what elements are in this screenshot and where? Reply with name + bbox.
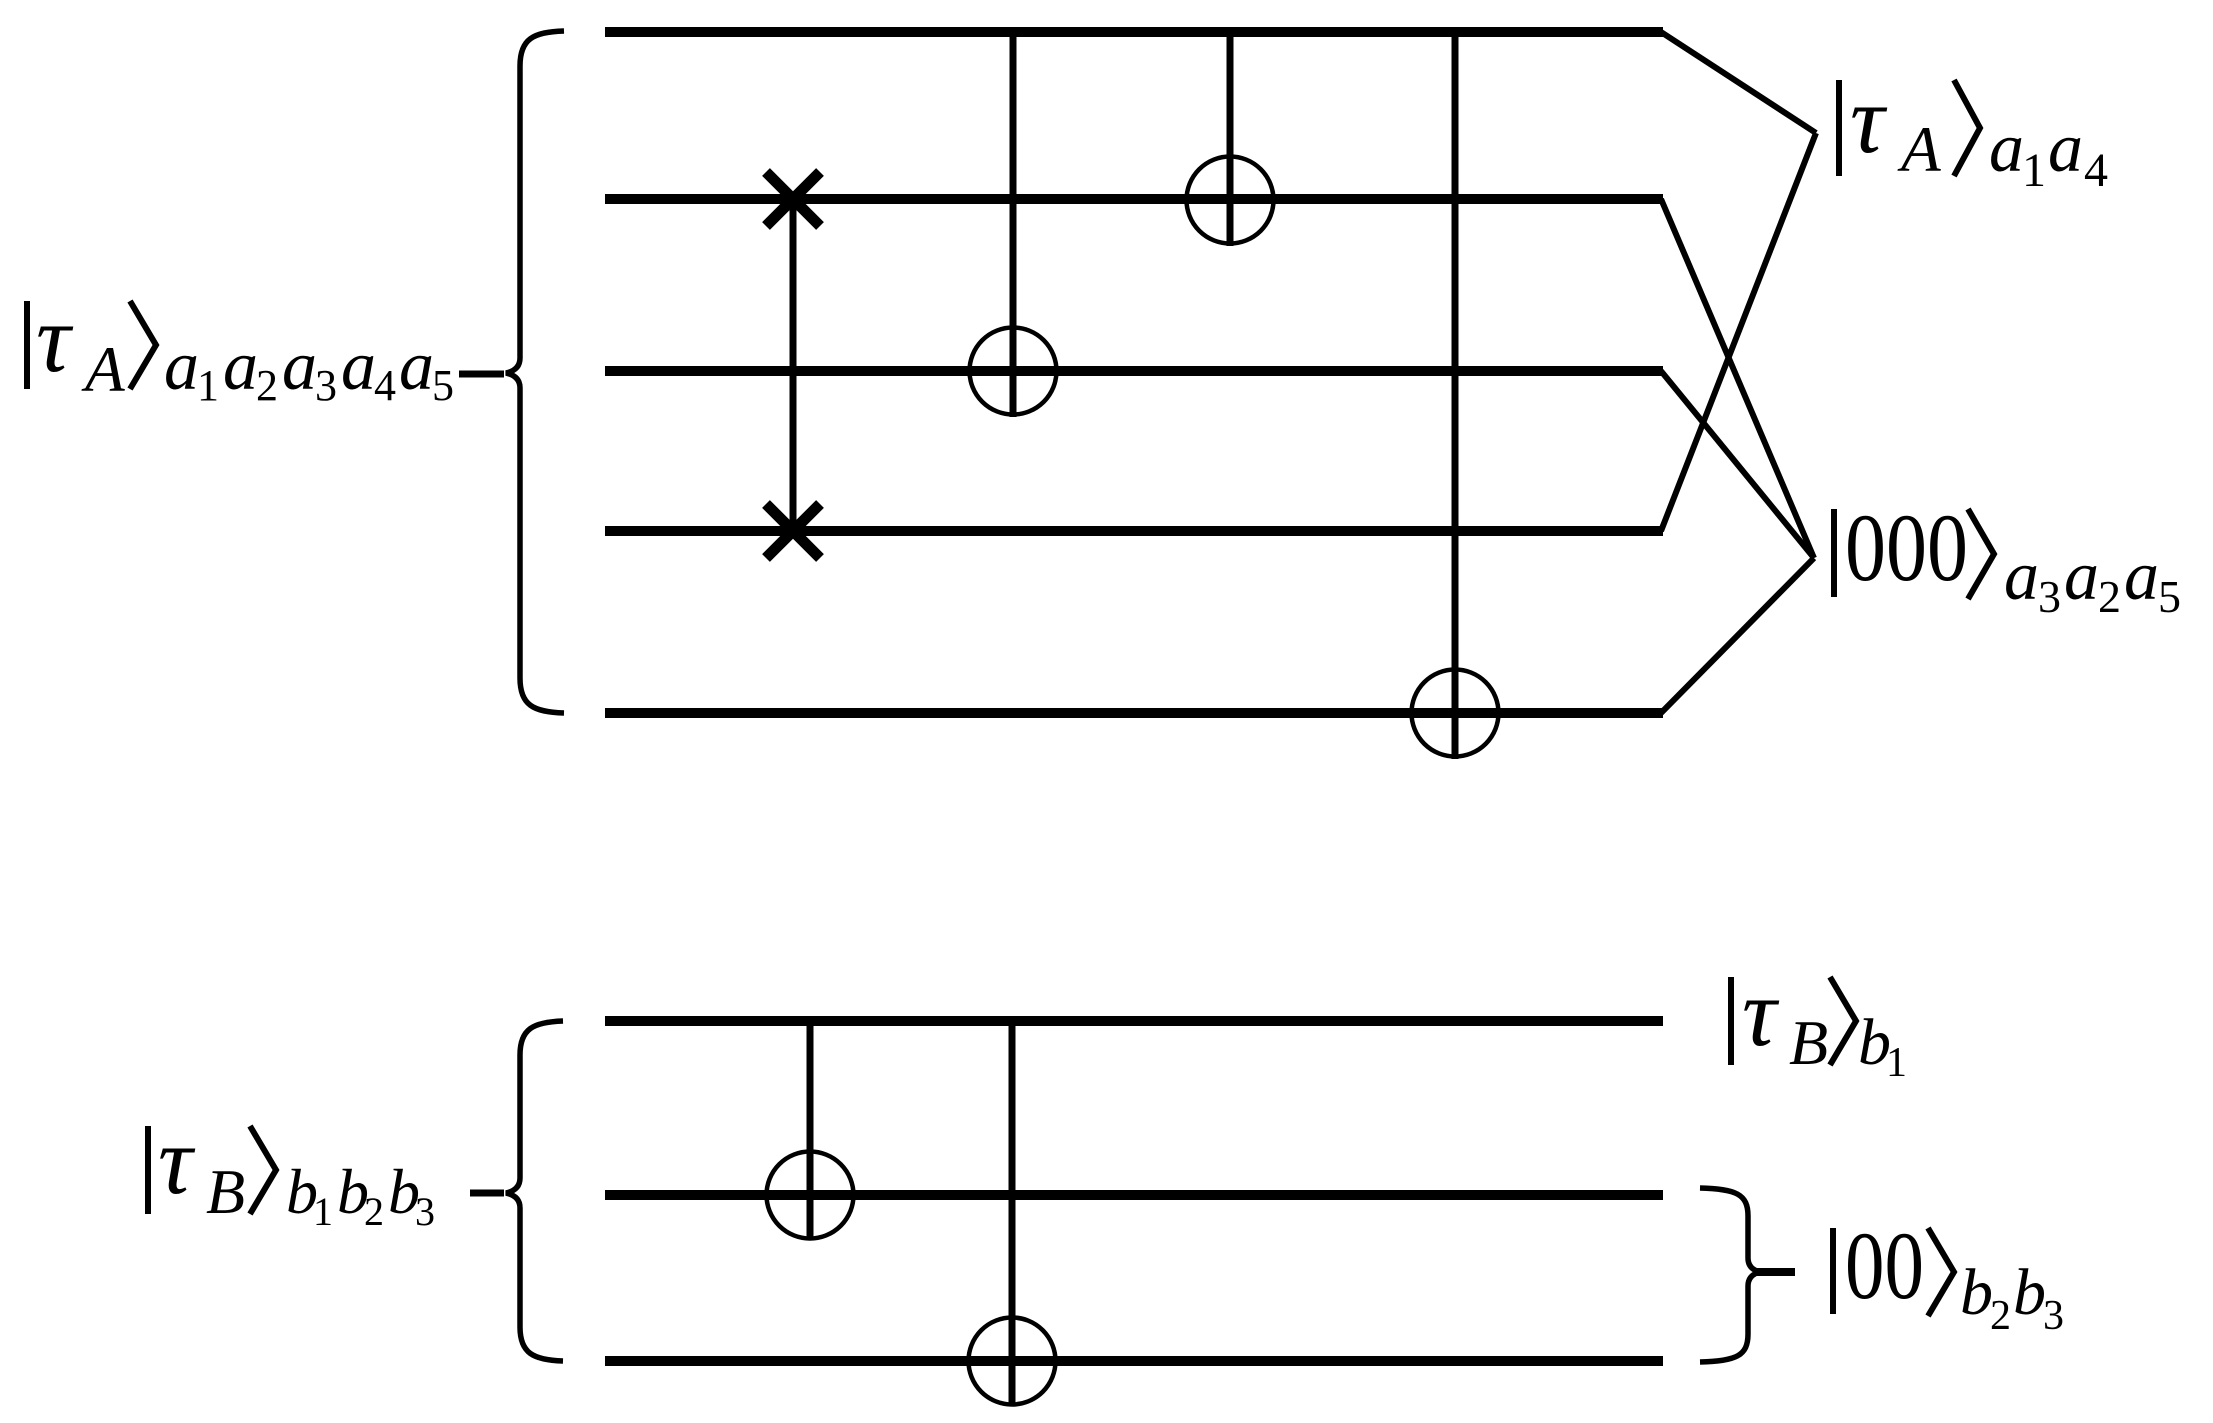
diagonal a4 to tauA node (1661, 133, 1816, 531)
svg-text:1: 1 (2022, 144, 2046, 197)
svg-text:1: 1 (313, 1189, 333, 1234)
svg-text:00: 00 (1845, 1212, 1924, 1319)
wire a2 (605, 194, 1663, 204)
svg-text:τ: τ (1850, 66, 1888, 173)
swap gate a2-a4 vertical (790, 199, 797, 531)
wire a5 (605, 708, 1663, 718)
svg-text:3: 3 (2038, 571, 2061, 622)
brace left of register B (506, 1021, 563, 1361)
brace right of b2b3 (1700, 1188, 1760, 1362)
cnot control line a1 to a5 (1452, 32, 1459, 759)
wire b1 (605, 1016, 1663, 1026)
svg-text:τ: τ (1742, 959, 1780, 1066)
svg-text:3: 3 (415, 1189, 435, 1234)
svg-text:a: a (2004, 538, 2039, 615)
swap cross on a4 (766, 504, 820, 558)
label ket tauB b1 (1728, 959, 1907, 1086)
svg-text:2: 2 (2098, 571, 2121, 622)
svg-text:a: a (341, 328, 376, 405)
svg-text:5: 5 (2158, 571, 2181, 622)
svg-text:b: b (2013, 1256, 2046, 1329)
svg-text:A: A (81, 334, 125, 406)
svg-text:000: 000 (1845, 494, 1968, 601)
svg-text:3: 3 (315, 361, 337, 410)
wire b2 (605, 1190, 1663, 1200)
swap cross on a2 (766, 172, 820, 226)
wire a1 (605, 27, 1663, 37)
svg-text:2: 2 (364, 1189, 384, 1234)
wire a4 (605, 526, 1663, 536)
svg-text:1: 1 (1886, 1040, 1907, 1086)
label ket 000 a3a2a5 (1831, 494, 2181, 622)
diagonal a1 to tauA node (1661, 32, 1816, 133)
svg-text:a: a (282, 328, 317, 405)
diagonal a2 to 000 node (1661, 199, 1814, 558)
svg-text:4: 4 (2084, 144, 2108, 197)
tick from label A to brace (459, 371, 504, 378)
label ket 00 b2b3 (1830, 1212, 2064, 1339)
svg-text:5: 5 (432, 361, 454, 410)
cnot target on a5 (1412, 670, 1499, 757)
svg-text:A: A (1897, 114, 1941, 186)
svg-text:a: a (2048, 110, 2083, 187)
svg-text:3: 3 (2043, 1293, 2064, 1339)
label ket tauA a1a4 (1836, 66, 2108, 197)
svg-text:b: b (1960, 1256, 1993, 1329)
cnot target on a3 (970, 328, 1057, 415)
cnot control line b1 to b2 (807, 1021, 814, 1240)
cnot target on b3 (969, 1318, 1056, 1405)
svg-text:2: 2 (256, 361, 278, 410)
svg-text:τ: τ (36, 285, 74, 392)
svg-text:1: 1 (197, 361, 219, 410)
cnot control line a1 to a2 (1227, 32, 1234, 246)
svg-text:τ: τ (158, 1107, 196, 1214)
svg-text:4: 4 (374, 361, 396, 410)
wire b3 (605, 1356, 1663, 1366)
tick from brace to label 00 (1757, 1268, 1795, 1276)
svg-text:a: a (164, 328, 199, 405)
wire a3 (605, 366, 1663, 376)
svg-text:B: B (206, 1156, 245, 1227)
svg-text:a: a (223, 328, 258, 405)
diagonal a3 to 000 node (1661, 371, 1814, 558)
label ket tauA a1a2a3a4a5 (24, 285, 454, 410)
brace left of register A (506, 31, 564, 713)
cnot target on a2 (1187, 157, 1274, 244)
cnot control line b1 to b3 (1009, 1021, 1016, 1406)
label ket tauB b1b2b3 (145, 1107, 435, 1234)
svg-text:2: 2 (1990, 1293, 2011, 1339)
cnot target on b2 (767, 1152, 854, 1239)
svg-text:a: a (399, 328, 434, 405)
diagonal a5 to 000 node (1661, 558, 1814, 713)
svg-text:a: a (2124, 538, 2159, 615)
svg-text:a: a (2064, 538, 2099, 615)
cnot control line a1 to a3 (1010, 32, 1017, 417)
svg-text:B: B (1789, 1007, 1828, 1078)
tick from label B to brace (470, 1190, 504, 1197)
svg-text:a: a (1989, 110, 2024, 187)
